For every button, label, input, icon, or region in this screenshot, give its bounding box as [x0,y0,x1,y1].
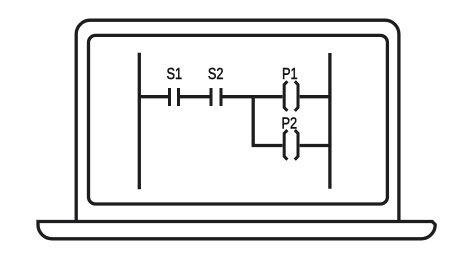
laptop base [38,222,435,239]
wire: contact S2 to coil P1 (through branch junction) [223,95,283,98]
svg-text:P1: P1 [282,66,298,83]
svg-text:S1: S1 [166,66,182,83]
wire: coil P1 to right rail [300,95,330,98]
contact S1 [170,88,179,106]
coil P1 [284,81,298,111]
branch junction vertical wire [252,97,255,146]
coil P2 [284,130,298,160]
wire: left rail to contact S1 [139,95,168,98]
right power rail [328,53,331,189]
wire: branch to coil P2 [252,144,283,147]
left power rail [138,53,141,190]
wire: contact S1 to contact S2 [180,95,210,98]
laptop screen (inner bezel) [89,35,388,204]
wire: coil P2 to right rail [300,144,330,147]
contact S2 [211,88,221,106]
svg-text:P2: P2 [281,116,297,133]
svg-text:S2: S2 [208,66,224,83]
laptop lid (outer frame) [76,20,399,222]
